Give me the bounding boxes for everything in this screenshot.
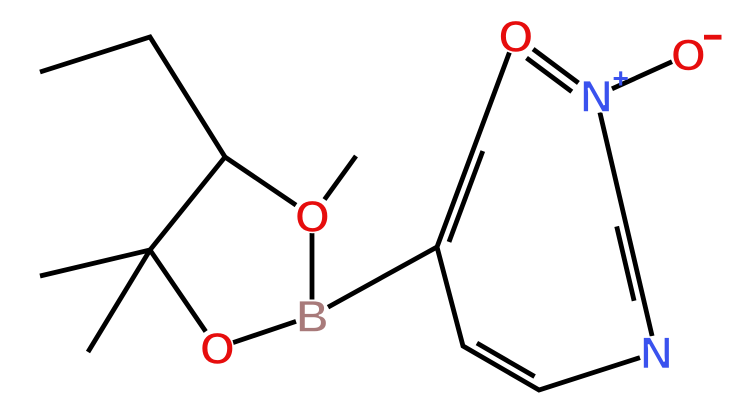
svg-text:O: O [200, 323, 235, 374]
svg-text:N: N [580, 71, 613, 122]
double C5=C6 inner [477, 343, 535, 376]
bond C2-CH3b [88, 250, 150, 352]
svg-text:O: O [295, 191, 330, 242]
double C2=N1 inner [617, 226, 634, 300]
bond B-C4 part [328, 247, 437, 307]
stub O_top upright [325, 156, 357, 200]
svg-text:N: N [640, 328, 673, 379]
svg-text:O: O [671, 30, 706, 81]
bond C2-CH3a [40, 250, 150, 276]
chain CH3-CH-C1-C2-Obot [40, 37, 225, 332]
bond O_top-C1 [225, 157, 296, 205]
double N=O main [533, 49, 578, 83]
double C3=C4 inner [449, 151, 483, 242]
svg-text:O: O [498, 11, 533, 62]
line Nplus-C2-N1 [600, 113, 652, 337]
double N=O inner [527, 58, 572, 92]
svg-text:+: + [613, 63, 629, 94]
svg-text:B: B [296, 291, 329, 342]
bond B-O_bot [233, 321, 296, 342]
bond B-O_top [310, 233, 315, 300]
bond Nplus-Ominus [612, 62, 672, 89]
ring path Onitro-C4-C5-C6-N [437, 53, 640, 391]
charge minus on O_minus [704, 35, 722, 40]
